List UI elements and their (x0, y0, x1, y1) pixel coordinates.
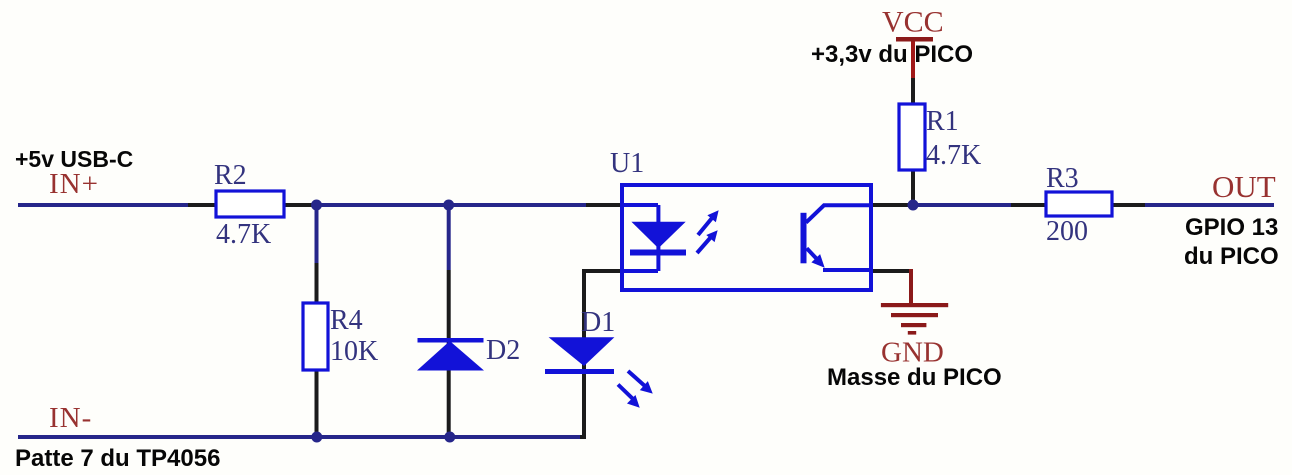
wire IN+ left segment (18, 203, 190, 207)
wire black into U1 pin1 (586, 203, 624, 207)
U1 phototransistor collector (806, 205, 871, 222)
svg-text:OUT: OUT (1212, 169, 1276, 204)
U1 pin1 inner wire (622, 203, 658, 207)
resistor R2 body (216, 191, 284, 217)
U1 phototransistor emitter with arrow (807, 248, 871, 272)
svg-text:Patte 7 du TP4056: Patte 7 du TP4056 (15, 445, 220, 472)
wire black out of R3 (1110, 203, 1147, 207)
U1 LED arrow 2 (697, 227, 722, 253)
node junction dot C (R1/OUT) (908, 200, 919, 211)
wire OUT segment (1145, 203, 1274, 207)
wire GND lead dark red (909, 269, 913, 305)
svg-text:+3,3v du PICO: +3,3v du PICO (811, 41, 973, 68)
svg-text:IN+: IN+ (49, 168, 99, 200)
optocoupler U1 box (622, 185, 871, 290)
svg-text:R1: R1 (926, 106, 959, 137)
U1 phototransistor base bar (801, 213, 807, 263)
wire navy down from node2 (447, 205, 451, 270)
wire black R4 to bottom rail (315, 368, 319, 437)
wire U1 pin3 to node3 (869, 203, 915, 207)
node junction dot B (D2 top) (443, 200, 454, 211)
wire black R1 to node3 (911, 168, 915, 205)
svg-text:D2: D2 (486, 335, 520, 366)
svg-text:4.7K: 4.7K (926, 140, 981, 171)
svg-text:U1: U1 (610, 148, 644, 179)
wire black into R2 (188, 203, 218, 207)
resistor R1 body (899, 104, 925, 170)
svg-text:du PICO: du PICO (1184, 243, 1279, 270)
wire black above R1 (911, 78, 915, 106)
svg-text:Masse du PICO: Masse du PICO (827, 364, 1002, 391)
svg-text:GPIO 13: GPIO 13 (1185, 214, 1278, 241)
wire U1 pin4 to GND lead (869, 269, 911, 273)
resistor R3 body (1046, 192, 1112, 216)
wire black into R3 (1011, 203, 1048, 207)
LED D1 emission arrow 2 (618, 385, 644, 412)
U1 pin2 inner wire (622, 269, 658, 273)
wire node3 right (913, 203, 1011, 207)
svg-text:10K: 10K (330, 336, 378, 367)
wire black R2 to node (282, 203, 318, 207)
diode D2 symbol (417, 338, 484, 371)
ground symbol (881, 303, 948, 335)
wire U1 pin2 to D1 vertical (580, 271, 624, 437)
svg-text:R3: R3 (1046, 163, 1079, 194)
U1 internal LED symbol (630, 222, 686, 256)
wire bottom rail IN- (18, 435, 582, 439)
wire VCC red stub (911, 40, 915, 80)
LED D1 symbol (545, 337, 614, 374)
wire node1 to node2 to U1 area (315, 203, 586, 207)
svg-text:200: 200 (1046, 216, 1088, 247)
node junction dot E (rail/D2) (444, 432, 455, 443)
node junction dot A (R2/R4) (311, 200, 322, 211)
svg-text:4.7K: 4.7K (216, 219, 271, 250)
svg-text:IN-: IN- (49, 402, 92, 434)
wire black through D2 to rail (447, 270, 451, 437)
U1 internal LED vertical wire (656, 205, 660, 271)
svg-text:D1: D1 (581, 307, 615, 338)
wire navy down from node1 (315, 205, 319, 263)
node junction dot D (rail/R4) (311, 432, 322, 443)
svg-text:R2: R2 (214, 160, 247, 191)
LED D1 emission arrow 1 (628, 371, 657, 398)
VCC power bar (896, 37, 933, 42)
resistor R4 body (303, 303, 328, 370)
svg-text:R4: R4 (330, 305, 363, 336)
svg-text:VCC: VCC (882, 6, 944, 39)
U1 LED arrow 1 (698, 207, 723, 235)
wire black into R4 (315, 263, 319, 305)
